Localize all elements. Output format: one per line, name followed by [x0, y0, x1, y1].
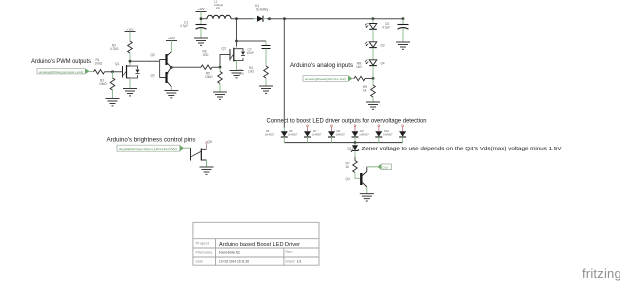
capacitor C5 output — [382, 19, 409, 42]
wire flag to R1 — [89, 70, 94, 73]
svg-text:1N4007: 1N4007 — [383, 133, 393, 137]
inductor L1 100uH 2A — [207, 0, 231, 19]
capacitor C1 input — [180, 19, 207, 38]
diode D8 1N4007 — [336, 125, 359, 143]
svg-text:1N4007: 1N4007 — [265, 133, 275, 137]
node: Q1 drain junction — [129, 60, 132, 63]
ground under Q3 — [230, 71, 244, 78]
resistor R8 1k — [352, 62, 373, 81]
node: emitter junction — [170, 66, 173, 69]
svg-text:Connect to boost LED driver ou: Connect to boost LED driver outputs for … — [267, 118, 427, 125]
svg-text:D10: D10 — [383, 165, 389, 169]
resistor R3 10k — [99, 72, 115, 99]
svg-text:boost driver.fzz: boost driver.fzz — [219, 251, 240, 255]
net label flag: analog input — [303, 76, 352, 82]
node: zener tap — [354, 141, 357, 144]
svg-text:D8: D8 — [337, 129, 341, 133]
ground under R9 — [366, 102, 380, 109]
diode D5 1N4007 — [265, 128, 288, 143]
resistor R2 4.7k — [110, 41, 132, 61]
power +12V (above R2) — [125, 27, 136, 41]
svg-text:Rev:: Rev: — [286, 250, 293, 254]
wire L1 to D1 — [231, 18, 254, 20]
svg-text:10kΩ: 10kΩ — [99, 82, 107, 86]
node: sense junction — [372, 77, 375, 80]
svg-text:Q2: Q2 — [151, 53, 155, 57]
node: Q3 gate junction — [219, 66, 222, 69]
resistor R6 10 — [201, 50, 212, 70]
transistor Q2b pnp (bottom driver) — [151, 67, 172, 90]
svg-text:analogWrite(pwmpin,val): analogWrite(pwmpin,val) — [39, 70, 83, 74]
svg-text:2A: 2A — [216, 6, 220, 10]
svg-text:10kΩ: 10kΩ — [205, 75, 213, 79]
svg-text:100Ω: 100Ω — [95, 61, 103, 65]
wire output rail — [267, 18, 403, 20]
svg-text:Q5: Q5 — [208, 140, 212, 144]
svg-text:1kΩ: 1kΩ — [356, 65, 362, 69]
wire emitters to R6 — [171, 66, 201, 68]
resistor R1 100 — [94, 58, 105, 74]
svg-text:10Ω: 10Ω — [248, 70, 255, 74]
svg-text:Sheet:: Sheet: — [285, 259, 295, 263]
net label flag: brightness control — [117, 145, 184, 151]
node: D1 cathode junction — [268, 17, 271, 20]
wire output rail down to row — [283, 19, 285, 128]
ground under Q5 — [200, 167, 214, 174]
node: Q1 gate junction — [111, 70, 114, 73]
svg-text:D3: D3 — [381, 44, 385, 48]
svg-text:digitalWrite(ctrlpin,HIGH/LOW): digitalWrite(ctrlpin,HIGH/LOW) — [119, 147, 177, 151]
svg-text:Date: Date — [196, 259, 203, 263]
wire +12V node to L1 — [201, 18, 207, 20]
svg-text:Q3: Q3 — [222, 47, 226, 51]
svg-text:D7: D7 — [313, 129, 317, 133]
svg-text:fritzing: fritzing — [582, 266, 620, 281]
diode D6 1N4007 — [288, 125, 311, 143]
svg-text:+12V: +12V — [126, 27, 133, 31]
svg-text:Arduino's PWM outputs: Arduino's PWM outputs — [31, 58, 91, 65]
svg-text:1N4007: 1N4007 — [359, 133, 369, 137]
svg-text:1N4007: 1N4007 — [288, 133, 298, 137]
transistor Q3 n-mosfet — [222, 46, 246, 71]
wire common cathode row — [284, 142, 402, 144]
svg-text:4.7μF: 4.7μF — [180, 24, 188, 28]
ground under R5 — [213, 92, 227, 99]
node: output cap junction — [402, 17, 405, 20]
svg-text:Filename: Filename — [196, 251, 213, 255]
ground under driver — [164, 91, 178, 98]
svg-text:4.7kΩ: 4.7kΩ — [110, 47, 119, 51]
svg-text:Arduino based Boost LED Driver: Arduino based Boost LED Driver — [219, 242, 300, 248]
svg-text:+12V: +12V — [168, 36, 175, 40]
svg-text:D5: D5 — [266, 129, 270, 133]
capacitor C2 snubber — [247, 41, 271, 66]
wire flag to Q5 gate — [184, 147, 191, 149]
ground under Q1 source — [123, 89, 137, 96]
power +12V (above driver pair) — [166, 36, 177, 50]
svg-text:Zener voltage to use depends o: Zener voltage to use depends on the Q4's… — [362, 146, 563, 152]
svg-text:10Ω: 10Ω — [203, 53, 210, 57]
svg-text:1N4007: 1N4007 — [336, 133, 346, 137]
svg-text:D4: D4 — [381, 62, 385, 66]
LED D4 — [365, 60, 385, 79]
svg-text:1kΩ: 1kΩ — [239, 72, 245, 76]
svg-text:Q1: Q1 — [115, 62, 119, 66]
node: LED string tap — [372, 17, 375, 20]
svg-text:13 Oct 2014 16:11:26: 13 Oct 2014 16:11:26 — [219, 259, 249, 263]
transistor Q4 npn — [346, 167, 367, 194]
node: switch node junction — [235, 17, 238, 20]
node: overvoltage rail tap — [283, 17, 286, 20]
ground under C1 — [194, 38, 208, 45]
wire R6 to gate node — [212, 55, 230, 68]
svg-text:D10: D10 — [384, 129, 389, 133]
svg-text:Schottky: Schottky — [256, 8, 269, 12]
wire R1 to gate node — [105, 71, 123, 73]
svg-text:1k: 1k — [363, 89, 367, 93]
svg-text:4.7μF: 4.7μF — [382, 26, 390, 30]
net label flag: overvoltage signal — [378, 164, 392, 170]
ground under R3 — [106, 99, 120, 106]
svg-text:D9: D9 — [360, 129, 364, 133]
ground under snubber — [259, 86, 273, 93]
svg-text:10nF: 10nF — [247, 51, 254, 55]
resistor R5 10k — [205, 67, 222, 92]
svg-text:1/1: 1/1 — [297, 259, 302, 263]
svg-text:1k: 1k — [346, 165, 350, 169]
transistor Q1 n-mosfet — [115, 61, 140, 88]
diode D1 Schottky — [254, 4, 269, 22]
ground under C5 — [396, 42, 410, 49]
resistor R10 1k — [346, 157, 361, 178]
diode D7 1N4007 — [312, 125, 335, 143]
svg-text:Q4: Q4 — [346, 177, 350, 181]
svg-text:+12V: +12V — [197, 7, 204, 11]
transistor Q2 npn (top driver) — [151, 50, 172, 67]
svg-text:D6: D6 — [289, 129, 293, 133]
svg-text:1N4007: 1N4007 — [312, 133, 322, 137]
wire collector to flag — [367, 166, 378, 168]
transistor Q5 n-mosfet — [191, 140, 212, 167]
resistor R4 10 snubber — [248, 66, 268, 86]
wire switch node down to Q3 drain — [236, 19, 238, 46]
resistor R9 1k — [363, 79, 375, 103]
node: +12V / C1 / L1 junction — [200, 17, 203, 20]
zener diode D12 — [348, 143, 360, 157]
node: snubber tap — [235, 40, 238, 43]
ground under Q4 — [360, 194, 374, 201]
diode D9 1N4007 — [359, 125, 382, 143]
svg-text:Arduino's brightness control p: Arduino's brightness control pins — [107, 136, 196, 143]
svg-text:Project: Project — [196, 242, 210, 246]
svg-text:Arduino's analog inputs: Arduino's analog inputs — [290, 62, 353, 69]
LED D3 — [365, 42, 385, 60]
svg-text:Q2: Q2 — [151, 74, 155, 78]
wire base bus — [159, 60, 161, 78]
svg-text:analogRead(A0,A1,A2): analogRead(A0,A1,A2) — [305, 77, 346, 81]
diode D10 1N4007 — [383, 125, 406, 143]
power +12V (input rail above C1) — [196, 7, 207, 19]
net label flag: PWM output — [37, 69, 89, 74]
wire Q1 drain to driver bases — [130, 60, 160, 62]
wire snubber tap to C2 — [237, 40, 267, 42]
LED D2 — [365, 19, 377, 42]
